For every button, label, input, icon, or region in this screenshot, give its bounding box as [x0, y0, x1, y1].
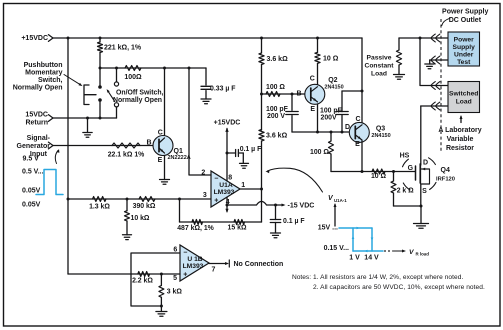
svg-text:8: 8	[228, 175, 232, 182]
node 3k bottom / ground	[160, 305, 163, 308]
svg-text:1.3 kΩ: 1.3 kΩ	[89, 203, 110, 210]
svg-text:G: G	[408, 165, 414, 172]
svg-text:100 Ω: 100 Ω	[266, 84, 285, 91]
node on/off switch top	[115, 67, 118, 70]
wire gate rail	[331, 171, 415, 173]
no-connection symbol	[225, 262, 229, 265]
svg-text:2 k Ω: 2 k Ω	[397, 188, 414, 195]
wire feedback branch down	[179, 199, 181, 222]
svg-text:Pushbutton: Pushbutton	[24, 62, 63, 69]
arrow -15VDC	[276, 204, 284, 206]
svg-text:C: C	[310, 75, 315, 82]
input waveform leader arrow	[55, 151, 58, 164]
svg-text:1. All resistors are 1/4 W, 2%: 1. All resistors are 1/4 W, 2%, except w…	[313, 274, 463, 281]
svg-text:Q4: Q4	[441, 167, 450, 174]
wire source to ground	[420, 206, 422, 224]
svg-text:Variable: Variable	[447, 136, 474, 143]
laboratory resistor arrow	[460, 117, 462, 123]
ground PSU return	[429, 60, 431, 64]
node 100pF no.2 bottom	[341, 131, 344, 134]
svg-text:100 Ω: 100 Ω	[310, 149, 329, 156]
resistor 487 kOhm 1%	[192, 220, 203, 225]
ground passive load	[394, 74, 405, 76]
svg-text:22.1 kΩ 1%: 22.1 kΩ 1%	[108, 151, 145, 158]
svg-text:Resistor: Resistor	[446, 145, 474, 152]
wire Q3 collector	[361, 38, 363, 124]
pushbutton momentary switch S1	[84, 85, 96, 105]
capacitor 100pF 200V no.1	[291, 94, 293, 110]
svg-text:+: +	[214, 198, 218, 205]
node -15 bypass	[274, 204, 277, 207]
transistor Q1 2N2222A	[153, 136, 173, 156]
node 100pF tap	[291, 93, 294, 96]
node Q1 collector row	[163, 67, 166, 70]
svg-text:Notes:: Notes:	[292, 274, 311, 281]
outlet label leader	[442, 18, 450, 25]
svg-text:3: 3	[203, 192, 207, 199]
node 487k tap	[178, 198, 181, 201]
node Q2 emitter rail	[316, 131, 319, 134]
svg-text:200V: 200V	[321, 115, 337, 122]
node pin4 / -15 rail	[226, 204, 229, 207]
svg-text:E: E	[355, 141, 360, 148]
resistor 221 kOhm 1%	[98, 42, 103, 53]
node signal bus / 1.3k	[67, 198, 70, 201]
svg-text:+15VDC: +15VDC	[214, 119, 241, 126]
hysteresis waveform bottom	[353, 250, 383, 252]
resistor 100 Ohm (top)	[125, 66, 141, 71]
wire 100pF no.2 to collector	[342, 90, 362, 92]
svg-text:On/Off Switch,: On/Off Switch,	[116, 89, 164, 96]
node U1A pin2 branch	[188, 67, 191, 70]
svg-text:Generator: Generator	[17, 143, 51, 150]
svg-text:Power Supply: Power Supply	[442, 9, 488, 16]
svg-text:487 kΩ, 1%: 487 kΩ, 1%	[177, 225, 214, 232]
svg-text:200 V: 200 V	[267, 113, 285, 120]
svg-text:−: −	[214, 176, 218, 183]
hysteresis waveform top	[339, 227, 372, 229]
svg-text:D: D	[423, 160, 428, 167]
svg-text:DC Outlet: DC Outlet	[449, 17, 482, 24]
svg-text:0.5 V...: 0.5 V...	[22, 168, 44, 175]
svg-text:A Laboratory: A Laboratory	[438, 127, 481, 134]
ground return	[87, 118, 89, 133]
node 3.6k top	[260, 37, 263, 40]
resistor 100 Ohm Q2 base	[266, 92, 280, 97]
wire 100-ohm row	[100, 67, 206, 69]
svg-text:Q2: Q2	[328, 77, 337, 84]
connector chevrons PSU-	[431, 56, 435, 64]
svg-text:14 V: 14 V	[364, 254, 379, 261]
wire feedback row	[180, 221, 262, 223]
svg-text:390 kΩ: 390 kΩ	[133, 203, 156, 210]
+15VDC input chevron	[48, 35, 53, 42]
svg-text:B: B	[146, 140, 151, 147]
resistor 15 kOhm	[234, 220, 245, 225]
wire -15VDC rail with hop	[227, 201, 277, 205]
svg-text:0.15 V...: 0.15 V...	[324, 245, 349, 252]
wire +15VDC rail	[53, 37, 362, 39]
resistor 10 kOhm vertical	[126, 199, 128, 211]
svg-text:3.6 kΩ: 3.6 kΩ	[266, 132, 288, 139]
svg-text:R load: R load	[416, 252, 430, 257]
wire left vertical bus	[67, 38, 69, 274]
svg-text:U 1B: U 1B	[187, 256, 202, 263]
ground 0.33uF cap	[201, 98, 211, 100]
input pulse waveform	[36, 170, 63, 195]
resistor 2.2 kOhm	[138, 272, 150, 277]
svg-text:3.6 kΩ: 3.6 kΩ	[267, 56, 289, 63]
resistor R 221k leads	[99, 38, 101, 42]
node 3k tap	[160, 273, 163, 276]
transistor Q3 2N4150	[349, 122, 369, 142]
svg-text:1 V: 1 V	[349, 254, 360, 261]
svg-text:LM393: LM393	[214, 189, 235, 196]
hysteresis waveform left edge	[352, 228, 354, 251]
wire mid vertical center	[261, 94, 263, 130]
hysteresis waveform right edge	[371, 228, 373, 251]
svg-text:D: D	[345, 124, 350, 131]
node 221k top	[99, 37, 102, 40]
svg-text:E: E	[310, 106, 315, 113]
dashed outlet boundary	[440, 19, 442, 152]
svg-text:2N4150: 2N4150	[324, 85, 343, 91]
svg-text:3 kΩ: 3 kΩ	[167, 289, 183, 296]
svg-text:Q3: Q3	[376, 126, 385, 133]
svg-text:7: 7	[212, 266, 216, 273]
node +15VDC/left vertical	[67, 37, 70, 40]
wire lower row 2.2k	[68, 273, 180, 275]
wire switched load top column	[420, 38, 448, 86]
node 100 Ohm pulldown top	[330, 131, 333, 134]
svg-text:Switch,: Switch,	[38, 77, 63, 84]
svg-text:2N2222A: 2N2222A	[168, 155, 191, 161]
resistor 1.3 kOhm	[93, 197, 107, 202]
Q4 heatsink arcs	[403, 159, 409, 167]
svg-text:Power: Power	[454, 36, 474, 43]
ground pin8 cap	[240, 162, 249, 164]
box Power Supply Under Test	[448, 32, 480, 66]
wire Q2 emitter	[317, 104, 319, 132]
wire Q2 base row	[262, 93, 305, 95]
svg-text:2: 2	[201, 170, 205, 177]
V_U1A-1 arrow	[334, 205, 336, 227]
node 2k gate tap	[392, 170, 395, 173]
connector chevrons PSU+	[431, 34, 435, 42]
svg-text:10 kΩ: 10 kΩ	[131, 215, 150, 222]
svg-text:No Connection: No Connection	[234, 261, 284, 268]
svg-text:B: B	[296, 90, 301, 97]
ground 10k	[123, 234, 132, 236]
svg-text:5: 5	[173, 275, 177, 282]
svg-text:Signal-: Signal-	[27, 135, 51, 142]
svg-text:Switched: Switched	[449, 90, 478, 97]
svg-text:10 Ω: 10 Ω	[371, 173, 387, 180]
wire PSU ground row	[430, 59, 448, 61]
U1B pin6 wire	[131, 253, 180, 306]
svg-text:Constant: Constant	[365, 63, 395, 70]
capacitor 0.33uF	[205, 68, 207, 85]
svg-text:15VDC: 15VDC	[25, 112, 48, 119]
transistor Q1 collector wire	[164, 68, 166, 135]
V_U1A-1 leader curve	[268, 168, 323, 192]
svg-text:Momentary: Momentary	[25, 70, 62, 77]
svg-text:2N4150: 2N4150	[371, 133, 390, 139]
svg-text:Return: Return	[25, 120, 48, 127]
svg-text:0.1 µ F: 0.1 µ F	[283, 218, 305, 225]
V R-load arrow	[384, 250, 386, 252]
node passive load column	[419, 37, 422, 40]
pushbutton wire bottom contact	[98, 98, 102, 102]
svg-text:Test: Test	[457, 59, 471, 66]
svg-text:Normally Open: Normally Open	[113, 97, 162, 104]
ground U1B network	[160, 306, 162, 312]
svg-text:0.1 µ F: 0.1 µ F	[240, 146, 262, 153]
transistor Q4 IRF120 mosfet	[415, 166, 417, 180]
svg-text:U1A: U1A	[219, 182, 233, 189]
svg-text:100Ω: 100Ω	[124, 74, 142, 81]
resistor 22.1 kOhm 1%	[112, 143, 140, 148]
svg-text:IRF120: IRF120	[436, 177, 455, 183]
U1A pin2 wire from 100-ohm row	[189, 68, 211, 175]
transistor Q2 2N4150	[305, 84, 325, 104]
svg-text:Passive: Passive	[367, 55, 392, 62]
resistor 390 kOhm	[139, 197, 155, 202]
node pin8 bypass cap	[226, 152, 229, 155]
transistor Q1 emitter wire	[164, 156, 166, 180]
wire U1B output	[209, 263, 227, 265]
box Switched Load	[448, 82, 480, 113]
wire passive load row	[399, 37, 448, 39]
svg-text:0.05V: 0.05V	[22, 187, 41, 194]
node Q3 emitter rail	[361, 170, 364, 173]
svg-text:Supply: Supply	[453, 44, 476, 51]
ground -15 cap	[271, 232, 281, 234]
svg-text:Under: Under	[454, 51, 474, 58]
node 100-ohm Q2 base row	[260, 93, 263, 96]
svg-text:E: E	[158, 157, 163, 164]
svg-text:-15 VDC: -15 VDC	[288, 203, 315, 210]
node source/ground	[420, 205, 423, 208]
wire mid vertical upper	[261, 38, 263, 53]
op-amp U1A LM393	[211, 171, 240, 207]
resistor passive constant load	[398, 38, 400, 50]
svg-text:6: 6	[173, 246, 177, 253]
U1A pin4 wire with down arrow	[226, 197, 228, 211]
wire 15VDC return	[53, 117, 117, 119]
pushbutton wire top contact	[99, 68, 101, 86]
svg-text:LM393: LM393	[183, 263, 204, 270]
svg-text:C: C	[355, 116, 360, 123]
svg-text:HS: HS	[400, 153, 410, 160]
node Q3 collector / cap tap	[361, 90, 364, 93]
svg-text:2. All capacitors are 50 WVDC,: 2. All capacitors are 50 WVDC, 10%, exce…	[313, 284, 485, 291]
node 10k tap	[126, 198, 129, 201]
hysteresis loop arrows	[357, 227, 361, 230]
svg-text:100 pF: 100 pF	[320, 107, 342, 114]
node pushbutton bottom	[99, 117, 102, 120]
wire attenuator row	[68, 198, 211, 200]
svg-text:10 Ω: 10 Ω	[323, 56, 339, 63]
svg-text:0.05V: 0.05V	[22, 201, 41, 208]
resistor 100 Ohm pulldown	[330, 132, 332, 141]
svg-text:2.2 kΩ: 2.2 kΩ	[132, 278, 153, 285]
svg-text:221 kΩ, 1%: 221 kΩ, 1%	[104, 45, 142, 52]
resistor 3.6 kOhm upper	[259, 53, 264, 65]
resistor 10 Ohm top	[316, 37, 319, 40]
resistor 3.6 kOhm lower	[259, 130, 264, 142]
resistor 10 Ohm gate	[372, 169, 385, 174]
svg-text:15V ...: 15V ...	[318, 225, 338, 232]
node output / feedback	[260, 188, 263, 191]
svg-text:100 pF: 100 pF	[266, 106, 288, 113]
op-amp U1B LM393	[180, 245, 209, 281]
svg-text:S: S	[422, 188, 427, 195]
svg-text:0.33 µ F: 0.33 µ F	[210, 86, 235, 93]
wire switched load bottom to drain	[421, 105, 448, 107]
svg-text:15 kΩ: 15 kΩ	[228, 224, 247, 231]
connector chevrons switched load top	[431, 82, 435, 90]
wire feedback up to output	[261, 189, 263, 222]
15VDC return chevron	[48, 115, 53, 122]
svg-text:1: 1	[241, 182, 245, 189]
svg-text:U1A-1: U1A-1	[334, 198, 347, 203]
capacitor 0.1uF at pin 8	[227, 152, 236, 154]
svg-text:Load: Load	[371, 71, 387, 78]
capacitor 100pF 200V no.2	[341, 91, 343, 112]
wire emitter rail	[292, 131, 350, 133]
signal input chevron	[48, 142, 53, 149]
pushbutton label leader arrow	[64, 75, 81, 85]
svg-text:C: C	[158, 129, 163, 136]
wire Q3 emitter	[361, 141, 363, 172]
node return/ground	[86, 117, 89, 120]
wire U1A output pin 1	[240, 188, 262, 190]
on/off switch contacts	[114, 82, 118, 86]
on/off switch S2 wires	[116, 68, 118, 82]
svg-text:+: +	[183, 272, 187, 279]
svg-text:Normally Open: Normally Open	[13, 85, 63, 92]
resistor 2 kOhm	[393, 172, 395, 182]
ground Q1 emitter	[160, 179, 170, 181]
capacitor 0.1uF at -15 rail	[275, 205, 277, 220]
resistor 3 kOhm	[160, 274, 162, 286]
connector chevrons switched load bottom	[431, 102, 435, 110]
svg-text:+15VDC: +15VDC	[21, 35, 48, 42]
svg-text:Load: Load	[456, 99, 472, 106]
ground Q4 source	[414, 223, 429, 225]
on/off switch lever	[108, 91, 115, 102]
node pushbutton top	[99, 67, 102, 70]
wire 2k bottom to source	[394, 205, 422, 207]
wire signal input	[53, 145, 153, 147]
svg-text:9.5 V: 9.5 V	[23, 155, 40, 162]
svg-text:Q1: Q1	[174, 148, 183, 155]
